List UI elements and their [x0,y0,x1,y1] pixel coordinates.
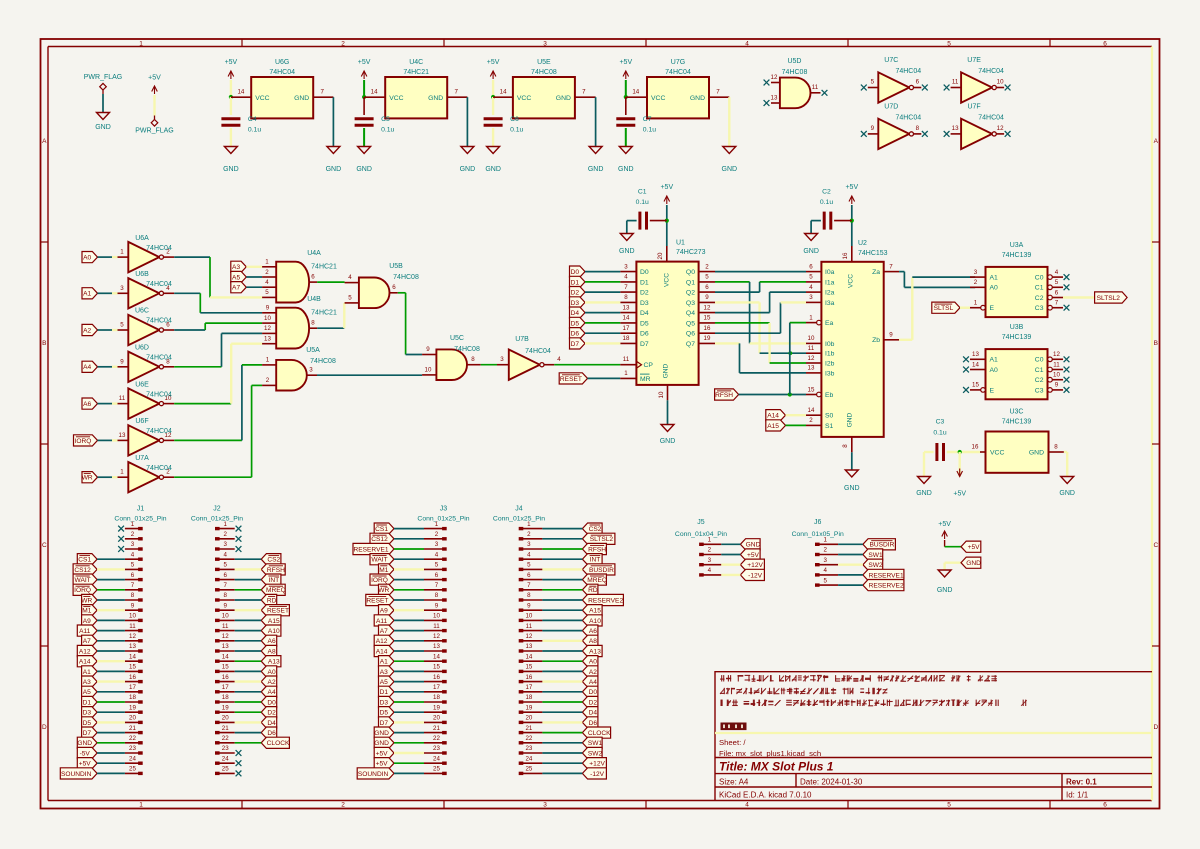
svg-text:1: 1 [120,469,124,476]
svg-text:A0: A0 [990,367,999,374]
note highlighted text [721,723,747,731]
svg-text:5: 5 [131,562,135,569]
wire Q2 to U2 I1a [715,282,806,292]
svg-text:+5V: +5V [79,761,92,768]
wire J5 pin 2 [721,554,740,556]
svg-text:Rev: 0.1: Rev: 0.1 [1066,778,1097,787]
svg-text:4: 4 [809,284,813,291]
wire J1 pin 17 [97,691,125,693]
svg-text:D1: D1 [83,699,92,706]
svg-text:Conn_01x25_Pin: Conn_01x25_Pin [114,516,166,523]
svg-text:U4A: U4A [307,250,321,257]
svg-text:A1: A1 [990,275,999,282]
global label D2 [570,287,586,298]
svg-text:Conn_01x25_Pin: Conn_01x25_Pin [417,516,469,523]
AND gate U5D 74HC08 spare [764,58,828,108]
svg-text:10: 10 [1053,372,1060,379]
wire J1 pin 19 [97,711,125,713]
global label +12V at J5 pin 3 [740,559,764,570]
svg-text:A14: A14 [376,648,388,655]
svg-text:J5: J5 [697,519,705,526]
junction dots on lattice [788,351,792,355]
svg-text:3: 3 [543,802,547,809]
svg-text:4: 4 [131,551,135,558]
svg-text:A4: A4 [268,689,276,696]
global label GND at J5 pin 1 [740,539,760,550]
IC U5E 74HC08 power unit with capacitor C6 [484,59,604,173]
wire U2 Zb to U3A A1 [899,277,975,340]
svg-text:21: 21 [129,725,136,732]
svg-text:C2: C2 [1035,377,1044,384]
svg-text:J3: J3 [440,506,448,513]
svg-text:16: 16 [704,325,711,332]
power GND stub with label [937,563,961,594]
global label WR [82,472,98,483]
global label A14 at J3 pin 13 [374,645,394,656]
global label MREQ at J2 pin 7 [261,584,286,595]
svg-text:7: 7 [527,582,531,589]
global label A8 at J2 pin 13 [261,645,277,656]
svg-text:74HC08: 74HC08 [310,358,336,365]
svg-text:U7C: U7C [884,57,898,64]
svg-text:IORQ: IORQ [74,587,91,594]
wire J3 pin 1 [394,528,424,530]
svg-text:74HC04: 74HC04 [895,68,921,75]
svg-text:6: 6 [311,274,315,281]
wire J1 pin 10 [97,619,125,621]
svg-text:D3: D3 [640,300,649,307]
global label A3 at J1 pin 16 [82,676,98,687]
wire J2 pin 14 [235,660,262,662]
svg-text:10: 10 [997,79,1004,86]
svg-text:14: 14 [371,89,378,96]
svg-text:GND: GND [803,248,819,255]
svg-text:SLTSL: SLTSL [934,305,954,312]
svg-text:A2: A2 [83,327,91,334]
wire J4 pin 22 [542,742,582,744]
svg-text:I3b: I3b [825,370,835,377]
wire A1 to U6B input [98,292,118,294]
svg-text:74HC139: 74HC139 [1002,252,1032,259]
global label CLOCK at J2 pin 22 [261,737,290,748]
svg-text:Date: 2024-01-30: Date: 2024-01-30 [800,778,863,787]
svg-text:74HC08: 74HC08 [782,69,808,76]
svg-text:CS12: CS12 [371,536,388,543]
inverter U6F 74HC04 [118,418,175,456]
svg-text:+5V: +5V [747,552,760,559]
svg-text:-12V: -12V [748,572,763,579]
svg-text:D6: D6 [571,331,580,338]
svg-text:I3a: I3a [825,300,835,307]
wire J4 pin 8 [542,599,582,601]
svg-text:D5: D5 [640,320,649,327]
wire J4 pin 13 [542,650,582,652]
wire J2 pin 5 [235,568,262,570]
svg-text:12: 12 [771,74,778,81]
svg-text:GND: GND [95,124,111,131]
wire A0 to U6A input [98,256,118,258]
svg-text:A15: A15 [589,608,601,615]
svg-text:D7: D7 [571,341,580,348]
wire J4 pin 16 [542,680,582,682]
global label D5 at J3 pin 19 [379,707,395,718]
svg-text:WAIT: WAIT [371,557,387,564]
svg-text:12: 12 [808,355,815,362]
global label WAIT at J1 pin 6 [73,574,97,585]
svg-text:A13: A13 [268,659,280,666]
global label CLOCK at J4 pin 21 [582,727,611,738]
global label A6 at J2 pin 12 [261,635,277,646]
global label A1 at J1 pin 15 [82,666,98,677]
svg-text:MREQ: MREQ [266,587,286,594]
wire J4 pin 10 [542,619,582,621]
svg-text:22: 22 [433,735,440,742]
global label A7 [231,282,247,293]
wire J5 pin 3 [721,564,740,566]
svg-text:C0: C0 [1035,275,1044,282]
svg-text:GND: GND [722,166,738,173]
inverter U7B 74HC04 [497,336,561,380]
svg-text:11: 11 [808,345,815,352]
no-connect J2 pin 3 [236,546,242,552]
wire J3 pin 25 [394,772,424,774]
svg-text:7: 7 [454,89,458,96]
wire A2 to U6C input [98,329,118,331]
global label IORQ at J1 pin 7 [73,584,97,595]
inverter U7A 74HC04 [118,455,175,493]
svg-text:A1: A1 [83,291,91,298]
wire J3 pin 18 [394,701,424,703]
wire Q0 to U2 I0a [715,271,806,273]
global label A1 at J3 pin 14 [379,656,395,667]
svg-text:Id: 1/1: Id: 1/1 [1066,791,1089,800]
svg-text:13: 13 [222,643,229,650]
svg-text:10: 10 [222,613,229,620]
global label GND [961,557,981,568]
svg-text:IORQ: IORQ [371,577,388,584]
note japanese text line 2 [720,688,887,694]
svg-text:GND: GND [294,95,309,102]
svg-text:74HC21: 74HC21 [311,310,337,317]
svg-text:74HC04: 74HC04 [146,465,172,472]
global label A1 [82,288,98,299]
svg-text:5: 5 [947,41,951,48]
wire J4 pin 19 [542,711,582,713]
svg-text:8: 8 [624,294,628,301]
connector J3 Conn_01x25_Pin [417,506,469,776]
svg-text:10: 10 [525,613,532,620]
svg-text:+5V: +5V [487,59,500,66]
global label D1 at J3 pin 17 [379,686,395,697]
global label A8 at J4 pin 12 [582,635,598,646]
svg-text:E: E [990,305,995,312]
wire J2 pin 21 [235,732,262,734]
svg-text:25: 25 [525,766,532,773]
inverter U7D 74HC04 spare [861,103,928,149]
wire A5 to U4A pin 2 [246,276,262,278]
wire J3 pin 20 [394,721,424,723]
svg-text:13: 13 [129,643,136,650]
svg-text:14: 14 [808,407,815,414]
svg-text:6: 6 [1103,802,1107,809]
svg-text:A0: A0 [990,285,999,292]
global label CS1 at J3 pin 1 [374,523,394,534]
svg-text:11: 11 [952,79,959,86]
svg-text:SW2: SW2 [588,750,603,757]
svg-text:+5V: +5V [968,544,981,551]
svg-text:GND: GND [618,166,634,173]
wire J3 pin 21 [394,732,424,734]
svg-text:15: 15 [972,382,979,389]
svg-text:U6B: U6B [135,271,149,278]
svg-text:U3A: U3A [1010,242,1024,249]
wire J4 pin 11 [542,630,582,632]
svg-text:J1: J1 [137,506,145,513]
svg-text:5: 5 [223,562,227,569]
svg-text:21: 21 [222,725,229,732]
svg-text:GND: GND [356,166,372,173]
global label A12 at J3 pin 12 [374,635,394,646]
wire J2 pin 11 [235,630,262,632]
global label D4 at J4 pin 19 [582,707,598,718]
svg-text:U7G: U7G [671,59,685,66]
connector J6 Conn_01x05_Pin [792,519,844,587]
svg-text:13: 13 [771,95,778,102]
global label RESERVE2 at J4 pin 8 [582,594,623,605]
svg-text:9: 9 [871,125,875,132]
wire J4 pin 15 [542,670,582,672]
svg-text:0.1u: 0.1u [636,199,649,206]
svg-text:Eb: Eb [825,392,834,399]
wire IORQ to U6F input [98,439,118,441]
svg-text:A7: A7 [83,638,91,645]
global label A15 at J4 pin 9 [582,605,602,616]
svg-text:5: 5 [871,79,875,86]
global label +12V at J4 pin 24 [582,758,606,769]
connector J5 Conn_01x04_Pin [675,519,727,577]
svg-text:SLTSL2: SLTSL2 [590,536,614,543]
global label RD at J2 pin 8 [261,594,277,605]
global label GND at J3 pin 21 [374,727,394,738]
svg-text:Ea: Ea [825,320,834,327]
wire J1 pin 14 [97,660,125,662]
global label CS2 at J4 pin 1 [582,523,602,534]
svg-text:D6: D6 [589,720,598,727]
svg-text:A15: A15 [767,423,779,430]
svg-text:C: C [1153,542,1158,549]
wire D5 to U1 [585,322,620,324]
svg-text:+5V: +5V [938,521,951,528]
svg-text:1: 1 [708,537,712,544]
svg-text:J2: J2 [213,506,221,513]
svg-text:+5V: +5V [619,59,632,66]
svg-text:4: 4 [557,356,561,363]
svg-text:C3: C3 [1035,305,1044,312]
svg-text:17: 17 [129,684,136,691]
global label WR at J1 pin 8 [81,594,97,605]
svg-text:A: A [42,138,47,145]
global label D7 at J1 pin 21 [82,727,98,738]
global label RESET [559,373,587,384]
svg-text:U4B: U4B [307,296,321,303]
global label A9 at J1 pin 10 [82,615,98,626]
global label A6 at J4 pin 11 [582,625,598,636]
svg-text:1: 1 [139,802,143,809]
global label CS2 at J2 pin 4 [261,554,281,565]
svg-text:C3: C3 [1035,387,1044,394]
svg-text:+5V: +5V [845,184,858,191]
svg-text:13: 13 [433,643,440,650]
AND gate U5B 74HC08 [345,263,419,308]
svg-text:D5: D5 [380,710,389,717]
wire J2 pin 8 [235,599,262,601]
wire J1 pin 25 [97,772,125,774]
svg-text:74HC273: 74HC273 [676,249,706,256]
global label A4 at J2 pin 17 [261,686,277,697]
svg-text:5: 5 [348,295,352,302]
svg-text:74HC08: 74HC08 [393,274,419,281]
global label A13 at J2 pin 14 [261,656,281,667]
svg-text:U7F: U7F [967,103,980,110]
svg-text:VCC: VCC [389,95,403,102]
global label CS1 at J1 pin 4 [77,554,97,565]
svg-text:U5B: U5B [389,263,403,270]
svg-text:6: 6 [223,572,227,579]
global label +5V at J3 pin 23 [374,747,394,758]
wire J6 pin 2 [838,554,863,556]
svg-text:9: 9 [889,332,893,339]
svg-text:4: 4 [823,567,827,574]
svg-text:D6: D6 [640,331,649,338]
svg-text:GND: GND [374,730,389,737]
wire J3 pin 2 [394,538,424,540]
capacitor C1 with +5V and GND [619,184,673,255]
svg-text:GND: GND [485,166,501,173]
global label A11 at J3 pin 10 [374,615,394,626]
svg-text:23: 23 [433,745,440,752]
wire J4 pin 24 [542,762,582,764]
svg-text:A0: A0 [268,669,276,676]
wire J4 pin 7 [542,589,582,591]
svg-text:74HC04: 74HC04 [146,391,172,398]
svg-text:2: 2 [823,547,827,554]
svg-text:16: 16 [972,444,979,451]
global label D5 at J1 pin 20 [82,717,98,728]
svg-text:D2: D2 [589,699,598,706]
svg-text:J4: J4 [515,506,523,513]
wire J3 pin 15 [394,670,424,672]
wire U6B output to U4B pin 9 [174,293,262,313]
svg-text:D0: D0 [571,269,580,276]
wire J1 pin 4 [97,558,125,560]
svg-text:21: 21 [433,725,440,732]
svg-text:7: 7 [320,89,324,96]
title block [715,733,1152,801]
svg-text:24: 24 [129,755,136,762]
svg-text:A14: A14 [767,413,779,420]
svg-text:A11: A11 [79,628,91,635]
svg-text:2: 2 [341,802,345,809]
wire J4 pin 20 [542,721,582,723]
svg-text:74HC04: 74HC04 [525,348,551,355]
wire J1 pin 6 [97,579,125,581]
wire J4 pin 12 [542,640,582,642]
svg-text:+5V: +5V [660,184,673,191]
svg-text:D4: D4 [589,710,598,717]
svg-text:U6F: U6F [135,418,148,425]
svg-text:RESET: RESET [560,376,582,383]
global label MREQ at J4 pin 6 [582,574,607,585]
svg-text:D7: D7 [380,720,389,727]
svg-text:A9: A9 [83,618,91,625]
svg-text:U2: U2 [858,240,867,247]
svg-text:GND: GND [690,95,705,102]
global label A4 at J4 pin 16 [582,676,598,687]
global label A2 at J2 pin 16 [261,676,277,687]
svg-text:0.1u: 0.1u [820,199,833,206]
svg-text:D1: D1 [640,279,649,286]
svg-text:23: 23 [129,745,136,752]
global label -12V at J5 pin 4 [740,569,764,580]
svg-text:+12V: +12V [747,562,763,569]
global label IORQ at J3 pin 6 [370,574,394,585]
svg-text:16: 16 [433,674,440,681]
svg-text:74HC04: 74HC04 [978,68,1004,75]
wire J2 pin 13 [235,650,262,652]
wire U1 GND pin 10 to ground [658,385,675,445]
svg-text:B: B [42,340,46,347]
svg-text:WR: WR [82,475,93,482]
svg-text:A3: A3 [380,669,388,676]
svg-text:D5: D5 [83,720,92,727]
svg-text:20: 20 [525,715,532,722]
svg-text:BUSDIR: BUSDIR [589,567,614,574]
svg-text:5: 5 [947,802,951,809]
svg-text:17: 17 [222,684,229,691]
svg-text:3: 3 [809,294,813,301]
svg-text:U7A: U7A [135,455,149,462]
svg-text:A1: A1 [990,357,999,364]
inverter U6A 74HC04 [118,235,175,272]
svg-text:Conn_01x05_Pin: Conn_01x05_Pin [792,531,844,538]
svg-text:12: 12 [704,304,711,311]
wire J3 pin 5 [394,568,424,570]
global label A10 at J2 pin 11 [261,625,281,636]
svg-text:2: 2 [223,531,227,538]
svg-text:RESET: RESET [366,597,388,604]
svg-text:10: 10 [425,366,432,373]
svg-text:8: 8 [842,444,849,448]
svg-text:2: 2 [266,377,270,384]
wire U5B output to U5C pin 9 [398,293,422,355]
svg-text:D5: D5 [571,320,580,327]
wire J2 pin 20 [235,721,262,723]
svg-text:RESERVE1: RESERVE1 [869,572,904,579]
note japanese text line 1 [720,675,997,681]
svg-text:A10: A10 [589,618,601,625]
svg-text:A13: A13 [589,648,601,655]
svg-text:18: 18 [525,694,532,701]
global label D1 at J1 pin 18 [82,696,98,707]
global label BUSDIR at J4 pin 5 [582,564,615,575]
wire J3 pin 8 [394,599,424,601]
global label A9 at J3 pin 9 [379,605,395,616]
global label D0 [570,266,586,277]
svg-text:12: 12 [997,125,1004,132]
inverter U7F 74HC04 spare [944,103,1011,149]
svg-text:U1: U1 [676,240,685,247]
svg-text:2: 2 [809,417,813,424]
